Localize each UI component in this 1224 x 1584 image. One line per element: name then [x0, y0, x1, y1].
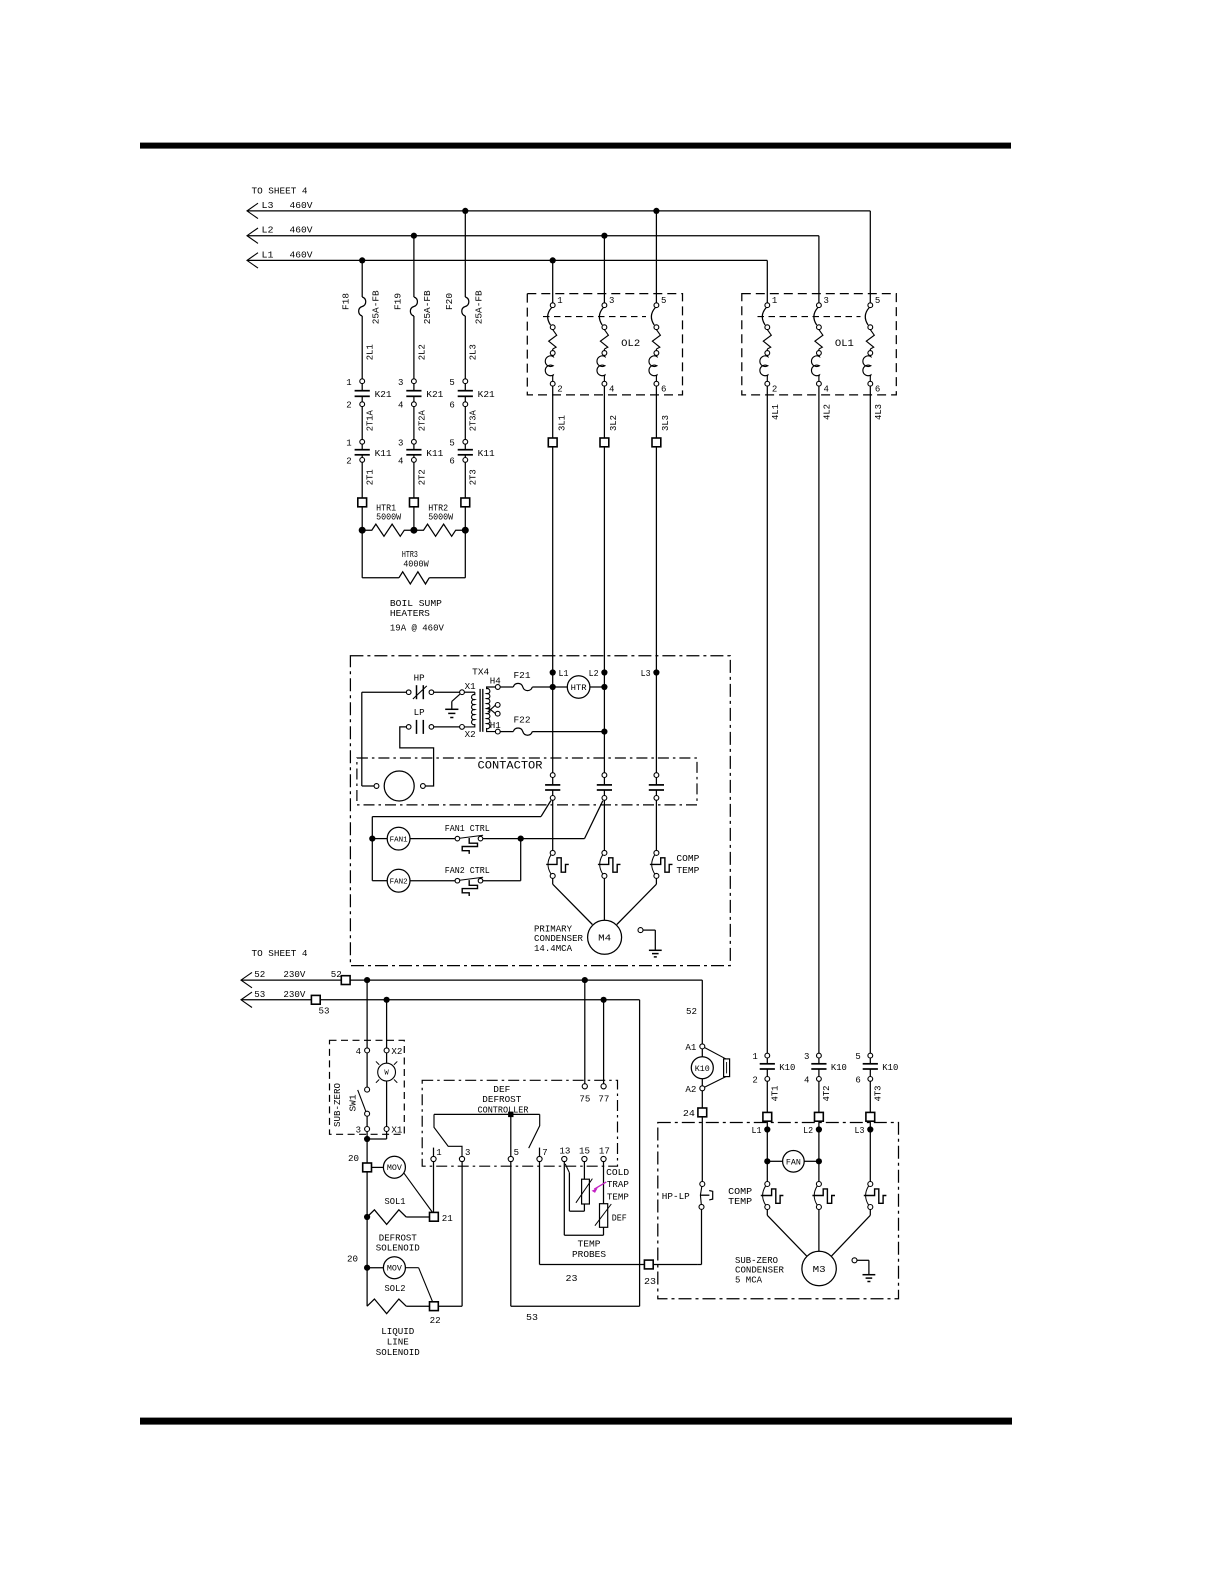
wire rail MOV2-SOL2 — [366, 1268, 368, 1307]
TX4 core — [480, 689, 483, 732]
svg-text:HP: HP — [414, 673, 425, 683]
svg-text:23: 23 — [644, 1277, 656, 1287]
label L2 460V — [262, 226, 314, 236]
svg-text:14.4MCA: 14.4MCA — [534, 944, 573, 954]
contactor contact 2 — [597, 773, 612, 801]
label HTR3 4000W — [402, 550, 429, 570]
svg-text:4L1: 4L1 — [771, 404, 781, 420]
label 23 (left) — [566, 1274, 578, 1284]
contactor contact 1 — [545, 773, 560, 801]
svg-text:4L3: 4L3 — [874, 404, 884, 420]
svg-text:OL1: OL1 — [835, 339, 854, 350]
wire 4T3 down — [869, 1081, 871, 1112]
wire K21-2 to K11 — [413, 407, 415, 440]
wire L3 bus — [247, 210, 870, 212]
wire fan out down — [520, 839, 522, 881]
wire MOV1 to 21 — [404, 1173, 433, 1213]
overload relay OL1 box — [742, 294, 897, 395]
svg-text:2T3A: 2T3A — [469, 410, 479, 432]
svg-text:K21: K21 — [426, 390, 443, 400]
wire 4T3 into box — [869, 1121, 871, 1184]
wire fan rail down — [371, 839, 373, 881]
label L3 460V — [262, 201, 314, 211]
node L2 (subzero) — [803, 1126, 822, 1136]
svg-text:OL2: OL2 — [621, 339, 640, 350]
svg-text:K21: K21 — [375, 390, 392, 400]
svg-text:L2: L2 — [262, 226, 274, 236]
svg-text:A2: A2 — [685, 1085, 696, 1095]
contact K10 5-6 — [855, 1052, 898, 1085]
switch SW1 — [358, 1087, 370, 1116]
contactor box — [357, 758, 697, 805]
terminal 15 — [579, 1146, 590, 1161]
solenoid SOL1 — [367, 1210, 429, 1225]
wire 52 to terminal 75 — [584, 980, 586, 1084]
svg-text:COMP: COMP — [728, 1187, 752, 1197]
net 2T3A — [469, 410, 479, 432]
svg-text:15: 15 — [579, 1146, 590, 1156]
fuse F18 25A-FB — [342, 290, 382, 325]
net 4T3 — [874, 1086, 884, 1102]
wire FAN to L2 — [804, 1160, 819, 1162]
svg-text:1: 1 — [772, 296, 777, 306]
OL2 element 5-6 — [649, 296, 666, 395]
svg-text:DEF: DEF — [493, 1085, 510, 1095]
net 4L1 — [771, 404, 781, 420]
wire thermistor1 bottom — [583, 1204, 585, 1211]
svg-text:460V: 460V — [290, 226, 314, 236]
label SUB-ZERO CONDENSER 5 MCA — [735, 1256, 785, 1285]
relay K10 pin A2 — [685, 1085, 704, 1095]
svg-text:13: 13 — [559, 1146, 570, 1156]
wire rail SOL1-MOV2 — [366, 1217, 368, 1268]
svg-text:2L1: 2L1 — [366, 344, 376, 360]
arrow L2 — [247, 228, 258, 243]
svg-text:5: 5 — [449, 438, 454, 448]
contact K11-1 pins 1,2 — [346, 438, 391, 466]
wire X2 to lamp — [386, 1053, 388, 1063]
wire FAN1 to switch — [410, 838, 455, 840]
svg-text:A1: A1 — [685, 1043, 696, 1053]
svg-text:3: 3 — [398, 378, 403, 388]
svg-text:2T2: 2T2 — [417, 469, 427, 485]
svg-text:4: 4 — [824, 385, 829, 395]
svg-text:53: 53 — [319, 1007, 330, 1017]
svg-text:K10: K10 — [779, 1063, 795, 1073]
label COMP TEMP (subzero) — [728, 1187, 752, 1207]
svg-text:K11: K11 — [375, 449, 392, 459]
node L1 (box) — [550, 669, 569, 679]
svg-text:5 MCA: 5 MCA — [735, 1275, 763, 1285]
junction L2-F19 — [411, 233, 417, 239]
svg-text:F21: F21 — [514, 671, 531, 681]
svg-text:SOLENOID: SOLENOID — [376, 1348, 420, 1358]
node L1 (subzero) — [752, 1126, 771, 1136]
controller common bus — [434, 1113, 540, 1115]
wire A1 to coil — [701, 1049, 703, 1057]
wire HTR2 lead — [413, 507, 415, 530]
wire 52 to K10 A1 — [686, 980, 702, 1044]
net 3L2 — [609, 415, 619, 431]
wire OL2 6 down — [655, 386, 657, 440]
svg-text:2: 2 — [346, 401, 351, 411]
wire MOV2 to 22 — [405, 1268, 432, 1303]
svg-text:CONTACTOR: CONTACTOR — [478, 760, 543, 772]
wire M4 mid lead — [603, 878, 605, 920]
svg-text:F19: F19 — [393, 293, 403, 310]
wire HTR3 right — [429, 530, 465, 578]
svg-text:5000W: 5000W — [428, 512, 454, 522]
wire lamp to X1 — [386, 1081, 388, 1126]
lamp W — [376, 1061, 397, 1082]
thermal contact M3-2 — [812, 1182, 835, 1210]
wire L1 to F18 — [361, 260, 363, 297]
wire HTR3 left — [362, 530, 399, 578]
net 2L2 — [417, 344, 427, 360]
svg-text:2T1A: 2T1A — [366, 410, 376, 432]
junction controller bus — [508, 1112, 513, 1117]
svg-text:17: 17 — [599, 1146, 610, 1156]
svg-text:L1: L1 — [559, 669, 569, 679]
resistor HTR1 — [362, 524, 414, 536]
svg-text:1: 1 — [346, 438, 351, 448]
wire F21 to L1 — [532, 686, 552, 688]
svg-text:FAN: FAN — [786, 1158, 801, 1167]
motor M4 — [588, 920, 622, 954]
net 2T3 — [469, 469, 479, 485]
wire FAN1 switch out — [483, 838, 521, 840]
terminal HTR2 top — [410, 498, 419, 507]
page bottom rule bar — [140, 1418, 1012, 1425]
svg-text:SUB-ZERO: SUB-ZERO — [735, 1256, 778, 1266]
wire contact1 down — [552, 800, 554, 850]
switch box SUB-ZERO SW1 — [330, 1040, 405, 1134]
svg-text:3L2: 3L2 — [609, 415, 619, 431]
thermal contact 3 — [650, 850, 673, 878]
svg-text:M3: M3 — [813, 1265, 826, 1275]
wire 3L1 down — [552, 447, 554, 773]
junction 52-75 — [582, 977, 588, 983]
junction MOV2 — [364, 1265, 370, 1271]
svg-text:20: 20 — [347, 1254, 358, 1264]
suppressor K10 — [705, 1048, 730, 1088]
label PRIMARY CONDENSER 14.4MCA — [534, 925, 584, 954]
wire L3 to F20 — [464, 211, 466, 297]
wire 52 bus — [241, 979, 702, 981]
wire HTR to L2 — [590, 686, 605, 688]
svg-text:3: 3 — [824, 296, 829, 306]
svg-text:4: 4 — [356, 1047, 361, 1057]
junction HTR node B — [410, 527, 417, 534]
net 2L3 — [469, 344, 479, 360]
TX4 crossed taps — [488, 703, 500, 717]
svg-text:2: 2 — [772, 385, 777, 395]
wire 53 vertical — [639, 1000, 641, 1306]
wire 53 to lamp X2 — [386, 1000, 388, 1048]
wire 4T1 into box — [766, 1121, 768, 1184]
svg-text:TO SHEET 4: TO SHEET 4 — [252, 949, 308, 959]
coil K10 — [691, 1057, 713, 1079]
wire 13 straight down — [564, 1162, 603, 1236]
svg-text:2L3: 2L3 — [469, 344, 479, 360]
wire 17 to thermistor2 — [603, 1162, 605, 1204]
contact K10 1-2 — [752, 1052, 795, 1085]
wire terminal5 to 53 — [511, 1162, 640, 1307]
net 2T2 — [417, 469, 427, 485]
svg-text:H4: H4 — [490, 677, 501, 687]
label HTR1 5000W — [376, 503, 402, 522]
svg-text:5: 5 — [449, 378, 454, 388]
junction FAN left — [764, 1158, 770, 1164]
wire 53 bus — [241, 999, 640, 1001]
svg-text:K10: K10 — [831, 1063, 847, 1073]
svg-text:2T2A: 2T2A — [417, 410, 427, 432]
svg-text:K11: K11 — [426, 449, 443, 459]
net 4L3 — [874, 404, 884, 420]
wire coil to A2 — [701, 1079, 703, 1086]
svg-text:52: 52 — [331, 970, 342, 980]
net 3L3 — [661, 415, 671, 431]
fuse F20 25A-FB — [445, 290, 485, 325]
svg-text:LINE: LINE — [387, 1337, 409, 1347]
wire 21 to terminal 1 — [433, 1162, 435, 1213]
wire SW1 pin4 down — [366, 1053, 368, 1087]
svg-text:6: 6 — [875, 385, 880, 395]
svg-text:SOL2: SOL2 — [385, 1284, 406, 1294]
label SOL2 — [385, 1284, 406, 1294]
svg-text:2: 2 — [346, 456, 351, 466]
svg-text:230V: 230V — [283, 990, 306, 1000]
terminal 7 stub — [539, 1148, 541, 1157]
junction fan rail — [369, 836, 375, 842]
wire LP left loop — [400, 727, 434, 786]
wire L2 to OL2 pin3 — [603, 236, 605, 303]
relay K10 pin A1 — [685, 1043, 704, 1053]
svg-text:6: 6 — [661, 385, 666, 395]
svg-text:6: 6 — [855, 1076, 860, 1086]
svg-text:23: 23 — [566, 1274, 578, 1284]
wire 22 to terminal 3 — [438, 1162, 462, 1307]
wire contact3 down — [655, 800, 657, 850]
wire L1 bus — [247, 259, 767, 261]
node L3 (box) — [641, 669, 660, 679]
svg-text:FAN2 CTRL: FAN2 CTRL — [445, 866, 490, 876]
svg-text:X2: X2 — [391, 1047, 402, 1057]
resistor HTR3 — [399, 572, 429, 584]
svg-text:4: 4 — [609, 385, 614, 395]
label TO SHEET 4 (lower) — [252, 949, 308, 959]
svg-text:TEMP: TEMP — [676, 866, 699, 876]
wire M4 left lead — [553, 878, 593, 924]
OL2 mechanical link — [543, 316, 646, 318]
resistor HTR2 — [414, 524, 465, 536]
wire OL2 2 down — [552, 386, 554, 440]
svg-text:5: 5 — [855, 1052, 860, 1062]
fuse F19 25A-FB — [393, 290, 433, 325]
svg-text:5000W: 5000W — [376, 512, 402, 522]
svg-text:L1: L1 — [262, 250, 274, 260]
arrow 53 — [241, 992, 252, 1007]
svg-text:TRAP: TRAP — [607, 1180, 629, 1190]
node L3 (subzero) — [855, 1126, 874, 1136]
svg-text:SUB-ZERO: SUB-ZERO — [333, 1083, 343, 1127]
label FAN1 CTRL — [445, 824, 490, 834]
wire HP-LP to 23 — [698, 1209, 702, 1264]
wire L1 to OL2 pin1 — [552, 260, 554, 302]
wire K11-2 to terminal — [413, 462, 415, 498]
switch FAN2 CTRL — [455, 877, 483, 896]
wire SW1 to pin3 — [366, 1116, 368, 1126]
OL2 element 1-2 — [545, 296, 562, 395]
wire contact2 down — [603, 800, 605, 850]
svg-text:3: 3 — [398, 438, 403, 448]
svg-text:F22: F22 — [514, 715, 531, 725]
label 53 230V — [254, 990, 306, 1000]
svg-text:TEMP: TEMP — [728, 1197, 752, 1207]
contact LP — [406, 708, 433, 734]
terminal 23 — [644, 1260, 656, 1287]
svg-text:PROBES: PROBES — [572, 1250, 606, 1260]
svg-text:1: 1 — [346, 378, 351, 388]
svg-text:DEF: DEF — [612, 1214, 627, 1224]
terminal 13 — [559, 1146, 570, 1161]
transformer TX4 label — [472, 668, 489, 678]
svg-text:M4: M4 — [598, 934, 611, 944]
wire K21-3 to K11 — [464, 407, 466, 440]
wire thermistor2 bottom — [603, 1227, 605, 1235]
svg-text:3: 3 — [609, 296, 614, 306]
terminal 5 — [508, 1148, 519, 1161]
wire 4T2 into box — [818, 1121, 820, 1184]
svg-text:CONDENSER: CONDENSER — [735, 1266, 785, 1276]
wire bus to terminal 5 — [510, 1114, 512, 1156]
svg-text:K21: K21 — [478, 390, 495, 400]
net 3L1 — [557, 415, 567, 431]
wire HP rail down — [361, 692, 363, 786]
svg-text:230V: 230V — [283, 970, 306, 980]
switch FAN1 CTRL — [455, 835, 483, 854]
controller switch 1-3 blade — [434, 1114, 462, 1156]
contact K21-1 pins 1,2 — [346, 378, 391, 411]
wire F22 to L2 — [532, 731, 604, 733]
svg-text:4T2: 4T2 — [822, 1086, 832, 1102]
svg-text:F20: F20 — [445, 293, 455, 310]
svg-text:460V: 460V — [290, 250, 314, 260]
wire L3 drop to OL1 — [869, 211, 871, 303]
wire L3 to OL2 pin5 — [655, 211, 657, 303]
svg-text:COMP: COMP — [676, 854, 699, 864]
wire K11-1 to terminal — [361, 462, 363, 498]
junction L3-F20 — [462, 208, 468, 214]
controller switch 5-7 blade — [529, 1114, 540, 1148]
svg-text:X2: X2 — [465, 730, 476, 740]
node L2 (box) — [589, 669, 608, 679]
terminal HTR3 top — [461, 498, 470, 507]
thermal contact 1 — [546, 850, 569, 878]
svg-text:6: 6 — [449, 456, 454, 466]
label TEMP PROBES — [572, 1239, 606, 1259]
svg-text:5: 5 — [875, 296, 880, 306]
junction HTR-L2 — [601, 684, 607, 690]
wire M3 right lead — [832, 1210, 871, 1256]
wire 3L2 down — [603, 447, 605, 773]
svg-text:DEFROST: DEFROST — [379, 1234, 418, 1244]
label CONTACTOR — [478, 760, 543, 772]
wire HP left — [362, 691, 407, 693]
wire M4 right lead — [617, 878, 657, 924]
junction F21-L1 — [550, 684, 556, 690]
terminal 1 — [431, 1148, 442, 1161]
wire HTR3 lead — [464, 507, 466, 530]
junction HTR node A — [359, 527, 366, 534]
svg-text:SW1: SW1 — [349, 1095, 359, 1112]
terminal 53 — [311, 995, 329, 1016]
pressure switch HP-LP — [699, 1182, 713, 1210]
label BOIL SUMP HEATERS 19A @ 460V — [390, 599, 445, 633]
svg-text:4: 4 — [398, 401, 403, 411]
svg-text:3: 3 — [804, 1052, 809, 1062]
svg-text:25A-FB: 25A-FB — [475, 290, 485, 325]
varistor MOV1 — [372, 1156, 406, 1178]
label 53 (bottom) — [526, 1313, 538, 1323]
wire OL1 2 down — [766, 386, 768, 1053]
net 2T2A — [417, 410, 427, 432]
svg-text:6: 6 — [449, 401, 454, 411]
sub-zero condenser box — [658, 1123, 899, 1299]
net 4L2 — [823, 404, 833, 420]
svg-text:SOL1: SOL1 — [385, 1197, 406, 1207]
label DEF DEFROST CONTROLLER — [478, 1085, 530, 1116]
contact HP — [406, 673, 433, 699]
OL1 element 5-6 — [863, 296, 880, 395]
svg-text:1: 1 — [436, 1148, 441, 1158]
terminal 4T2 — [815, 1112, 824, 1121]
wire HTR1 lead — [361, 507, 363, 530]
svg-text:MOV: MOV — [387, 1164, 402, 1173]
svg-text:K11: K11 — [478, 449, 495, 459]
motor FAN1 — [372, 827, 410, 850]
svg-text:LP: LP — [414, 708, 425, 718]
wire L1 to HTR — [553, 686, 568, 688]
label LIQUID LINE SOLENOID — [376, 1327, 420, 1358]
svg-text:3: 3 — [356, 1126, 361, 1136]
fuse F22 — [513, 715, 532, 735]
terminal 17 — [599, 1146, 610, 1161]
junction X1-rail — [364, 1136, 370, 1142]
svg-text:75: 75 — [579, 1094, 590, 1104]
motor M3 — [802, 1251, 836, 1285]
svg-text:L2: L2 — [589, 669, 599, 679]
wire FAN2 to switch — [410, 880, 455, 882]
svg-text:MOV: MOV — [387, 1265, 402, 1274]
label FAN2 CTRL — [445, 866, 490, 876]
junction HTR node C — [462, 527, 469, 534]
terminal 1 stub — [433, 1148, 435, 1157]
svg-text:TEMP: TEMP — [607, 1193, 629, 1203]
wire 15 to thermistor — [583, 1162, 585, 1180]
svg-text:53: 53 — [254, 990, 265, 1000]
terminal 77 — [601, 1084, 606, 1089]
terminal 3L1 — [548, 438, 557, 447]
net 4T1 — [771, 1086, 781, 1102]
label DEF (thermistor) — [612, 1214, 627, 1224]
svg-text:4T1: 4T1 — [771, 1086, 781, 1102]
svg-text:L1: L1 — [752, 1126, 762, 1136]
wire F19 to K21 — [413, 316, 415, 379]
svg-text:4: 4 — [398, 456, 403, 466]
terminal 3 — [459, 1148, 470, 1161]
wire F20 to K21 — [464, 316, 466, 379]
